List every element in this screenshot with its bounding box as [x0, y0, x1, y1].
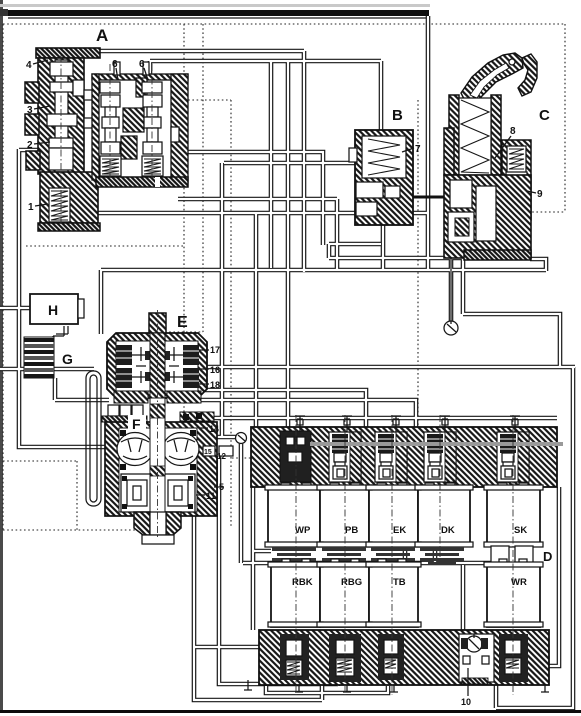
top manifold — [251, 427, 557, 487]
box H — [30, 294, 78, 324]
valve B passage 2 — [356, 202, 377, 216]
pump bottom bell — [134, 512, 150, 535]
dotted boundary EF region — [3, 100, 418, 530]
cylinder WR — [487, 565, 540, 627]
pump seals — [120, 430, 126, 436]
svg-text:7: 7 — [415, 144, 421, 155]
lever C arm — [461, 53, 523, 104]
governor E right flyweight lower — [183, 368, 199, 388]
clutch packs between rows — [272, 547, 464, 565]
pipe under F loop 3 — [219, 456, 338, 686]
pipe ball drop from C — [449, 258, 454, 324]
pipe riser A right x220 — [220, 163, 225, 437]
valve A spool land 2 — [49, 138, 73, 148]
pipe B bottom elbow — [329, 244, 381, 258]
pipe A left stub — [19, 148, 40, 153]
bottom ball unit — [459, 634, 494, 682]
pipe H to E — [0, 306, 31, 311]
svg-text:PB: PB — [345, 525, 358, 536]
cartridge EK — [375, 432, 407, 482]
dotted boundary outer — [3, 24, 565, 530]
valve B passage 1 — [356, 182, 383, 198]
pipe stub DK down — [433, 547, 438, 565]
pipe under F loop 1 — [194, 515, 322, 700]
valve body A right section left wall — [92, 74, 99, 180]
svg-text:H: H — [48, 302, 58, 318]
spring C big — [459, 98, 491, 175]
valve body A right section top bar — [92, 74, 188, 80]
label F — [128, 415, 146, 431]
pump right bar — [180, 412, 214, 421]
svg-text:SK: SK — [514, 525, 527, 536]
cartridge DK — [424, 432, 456, 482]
pump small boxes above — [108, 405, 119, 416]
valve body A right wall column — [171, 74, 188, 182]
pipe 14 line — [199, 435, 236, 440]
svg-text:EK: EK — [393, 525, 406, 536]
pipe long horizontal y367 — [204, 365, 575, 370]
cartridge SK — [497, 432, 529, 482]
stack G — [24, 337, 54, 378]
svg-text:14: 14 — [209, 424, 219, 434]
valve body A top plate — [36, 48, 100, 58]
valve A spool land top — [50, 62, 73, 76]
stems on manifold — [295, 416, 520, 432]
governor E interior — [116, 341, 198, 391]
frame underbar line — [8, 17, 428, 19]
valve body A bottom bar — [96, 177, 188, 187]
valve A spool block lower — [49, 148, 73, 170]
governor E right flyweight upper — [183, 345, 199, 365]
valve B left port — [349, 148, 357, 162]
body C lower — [444, 175, 531, 258]
pump shaft — [150, 398, 165, 512]
pipe between rows y565 — [243, 561, 492, 566]
pipe drop x463 to lower manifold — [461, 565, 466, 632]
valve body A center hatch patch 3 — [136, 78, 147, 97]
svg-text:1: 1 — [28, 202, 34, 213]
valve B passage 3 — [385, 186, 400, 198]
pipe manifold top rail y418 — [205, 416, 557, 421]
pump interior — [119, 428, 197, 512]
svg-text:12: 12 — [217, 452, 226, 461]
cylinder SK — [487, 489, 540, 546]
pipe ball down to rail — [239, 444, 244, 563]
pump bell foot — [142, 535, 174, 544]
valve body A right wall notch — [171, 127, 179, 142]
lever C inner slot — [470, 63, 509, 98]
cylinder DK — [418, 489, 470, 546]
svg-text:18: 18 — [210, 380, 220, 390]
cylinder flanges row1 — [265, 485, 323, 490]
A centerlines — [61, 55, 152, 225]
cylinder RBG — [320, 565, 369, 627]
pipe loop below G — [86, 371, 101, 506]
lever C hook — [518, 54, 537, 96]
valve body A left tower — [38, 58, 84, 174]
frame bottom line — [0, 710, 581, 713]
pipe long horizontal y270 — [101, 268, 546, 273]
valve 9 spring — [509, 149, 524, 169]
pipe A top riser — [148, 61, 153, 76]
pipe long horizontal y314 — [463, 314, 560, 367]
pipe long horizontal y390 — [204, 390, 366, 427]
body C lower passages — [450, 180, 472, 208]
svg-text:9: 9 — [537, 189, 543, 200]
valve A spool land mid — [47, 114, 77, 126]
pipe D side left — [251, 487, 256, 630]
cartridge PB — [329, 432, 361, 482]
svg-text:RBG: RBG — [341, 577, 362, 588]
H to G connector — [53, 326, 68, 340]
svg-text:DK: DK — [441, 525, 455, 536]
valve body A center hatch patch 1 — [123, 108, 144, 132]
cylinder top nubs row1 — [281, 483, 290, 490]
pipe long horizontal y400 left — [55, 398, 109, 403]
pipe stub y551 to RBK — [253, 549, 271, 554]
svg-text:15: 15 — [204, 449, 212, 456]
frame top smudge — [0, 4, 430, 7]
valve 9 lands — [506, 172, 527, 185]
valve 6a spool stack — [100, 82, 121, 176]
valve body A left protrusion lower — [26, 151, 40, 170]
pump impeller right — [163, 433, 199, 466]
pipe bottom loop 3 — [266, 686, 388, 693]
governor E shaft — [150, 333, 165, 398]
svg-text:8: 8 — [510, 126, 516, 137]
valve body B — [355, 130, 413, 225]
svg-text:D: D — [543, 549, 552, 564]
pipe C right down — [530, 259, 546, 271]
valve A cross channels — [84, 90, 93, 100]
pipe drop to B top — [379, 61, 384, 130]
svg-text:10: 10 — [461, 697, 471, 707]
cylinder PB — [320, 489, 369, 546]
cylinder WP — [268, 489, 320, 546]
pipe B bottom down — [329, 225, 463, 270]
pipe A under y213 — [85, 190, 428, 213]
spring chamber C walls — [449, 95, 459, 175]
valve body A center hatch patch 2 — [121, 136, 137, 159]
valve 8-9 block — [502, 140, 531, 220]
svg-text:RBK: RBK — [292, 577, 313, 588]
pipe right descent x575 — [496, 367, 573, 708]
pipe drop to E top left — [99, 270, 104, 334]
bottom manifold — [259, 630, 549, 685]
svg-text:17: 17 — [210, 345, 220, 355]
valve 1 housing — [40, 172, 98, 223]
valve 1 bore — [49, 188, 70, 222]
valve body A bottom bar slot — [155, 177, 160, 187]
lever C pivot — [509, 59, 515, 65]
governor E left flyweight lower — [116, 368, 132, 388]
svg-text:C: C — [539, 107, 550, 124]
svg-text:3: 3 — [27, 105, 33, 116]
small boxes 15 12 — [203, 446, 215, 456]
svg-text:E: E — [177, 314, 188, 331]
valve body A left protrusion mid — [25, 114, 39, 135]
spring 7 — [368, 139, 400, 175]
valve 6a stem — [114, 62, 120, 75]
pipe D side right — [549, 487, 559, 666]
svg-text:2: 2 — [27, 140, 33, 151]
pipe left edge y369 — [0, 367, 94, 372]
cylinder TB — [369, 565, 418, 627]
bottom cartridge 1 — [280, 634, 309, 680]
pipe stub EK down — [403, 547, 408, 565]
pipe A lower out — [178, 199, 337, 270]
valve A bore left — [55, 60, 68, 172]
pipe drop x254 to manifold — [254, 213, 259, 427]
SK pedestals — [491, 546, 509, 563]
governor E left flyweight upper — [116, 345, 132, 365]
governor E linkages — [132, 347, 183, 383]
drains below manifold — [244, 680, 549, 692]
svg-text:11: 11 — [206, 491, 216, 501]
cylinder top nubs row2 — [282, 559, 290, 566]
pump gear box — [121, 474, 195, 512]
svg-text:16: 16 — [210, 365, 220, 375]
ball valve near F — [236, 433, 247, 444]
pipe left pair from A — [19, 149, 107, 447]
frame top bar — [8, 10, 429, 16]
spring 1 — [51, 191, 68, 220]
pipe manifold feed x288 — [286, 61, 291, 427]
cylinder RBK — [271, 565, 320, 627]
governor E outer — [107, 333, 207, 398]
pipe A right out 2 — [269, 61, 274, 268]
svg-text:B: B — [392, 107, 403, 124]
valve 6b stem — [143, 62, 149, 75]
pipe A to B lower — [224, 161, 357, 166]
ball valve below C — [444, 321, 458, 335]
svg-text:TB: TB — [393, 577, 406, 588]
pipe A right out 1 — [150, 59, 381, 64]
cylinder EK — [369, 489, 418, 546]
governor E top neck — [149, 313, 166, 333]
pump casing — [105, 422, 217, 516]
pipe A to B upper — [185, 152, 323, 245]
gray pressure line — [310, 442, 563, 446]
centerlines D — [296, 415, 513, 695]
svg-text:4: 4 — [26, 60, 32, 71]
valve 9 bore — [507, 146, 526, 216]
pipe top heavy run y51 — [100, 51, 304, 272]
body C bottom bar — [464, 250, 531, 260]
svg-text:WP: WP — [295, 525, 311, 536]
bottom cartridge 3 — [378, 634, 404, 680]
valve body A left protrusion upper — [25, 82, 39, 103]
frame left edge — [0, 0, 3, 713]
dotted boundary A region — [26, 24, 231, 528]
bottom cartridge 5 — [499, 634, 528, 682]
pipe vertical x428 — [426, 16, 431, 270]
valve 6b spool stack — [142, 82, 163, 176]
pump impeller left — [117, 433, 153, 466]
cylinder flanges row2 — [268, 562, 323, 567]
bottom cartridge 2 — [329, 634, 361, 682]
cartridge WP dark — [280, 431, 311, 482]
pipe long horizontal y400 right — [196, 400, 416, 427]
pump centerline — [157, 310, 159, 538]
pipe G down — [53, 378, 58, 400]
pipe C left down — [461, 258, 466, 314]
valve B spring chamber — [362, 136, 406, 178]
svg-text:A: A — [96, 26, 108, 45]
valve A spool land 3 — [50, 82, 73, 92]
valve 1 bottom plate — [38, 223, 100, 231]
svg-text:6: 6 — [112, 59, 118, 70]
svg-text:F: F — [132, 416, 141, 432]
governor E bottom flanges — [114, 391, 148, 403]
svg-text:G: G — [62, 351, 73, 367]
thick link B to C — [413, 196, 463, 199]
valve A port stub right — [73, 80, 84, 96]
